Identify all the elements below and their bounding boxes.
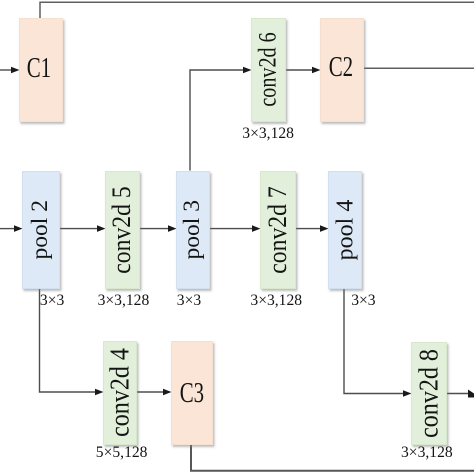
node C1 bbox=[19, 18, 63, 122]
value label 3x3 under pool3 bbox=[177, 294, 201, 307]
value label 3x3,128 under conv2d6 bbox=[242, 127, 294, 140]
wire: conv2d6 to C2 arrow bbox=[284, 69, 314, 71]
value label 3x3,128 under conv2d5 bbox=[98, 294, 150, 307]
node conv2d 7 bbox=[260, 171, 296, 290]
wire: pool2 drop down and arrow into conv2d4 bbox=[40, 287, 98, 392]
node conv2d 6 bbox=[251, 18, 286, 123]
value label 3x3 under pool4 bbox=[351, 294, 375, 307]
node conv2d 8 bbox=[411, 342, 447, 445]
wire: conv2d5 to pool3 arrow bbox=[138, 228, 170, 230]
wire: conv2d4 to C3 arrow bbox=[135, 391, 165, 393]
node C3 bbox=[171, 341, 213, 445]
value label 3x3,128 under conv2d8 bbox=[401, 446, 453, 459]
wire: arrow into pool2 from left edge bbox=[0, 228, 16, 230]
wire: conv2d8 out right with clipped arrowhead bbox=[445, 393, 470, 395]
node conv2d 5 bbox=[105, 171, 140, 290]
value label 3x3,128 under conv2d7 bbox=[250, 294, 302, 307]
wire: C3 drop down and line along bottom to right edge bbox=[191, 443, 474, 471]
value label 5x5,128 under conv2d4 bbox=[96, 446, 148, 459]
wire: pool4 drop down and arrow into conv2d8 bbox=[344, 287, 405, 394]
wire: pool2 to conv2d5 arrow bbox=[58, 228, 99, 230]
node pool 4 bbox=[328, 171, 362, 290]
node C2 bbox=[320, 18, 364, 122]
node conv2d 4 bbox=[103, 341, 137, 445]
node pool 2 bbox=[22, 171, 60, 290]
wire: conv2d7 to pool4 arrow bbox=[294, 228, 322, 230]
node pool 3 bbox=[176, 171, 210, 290]
wire: arrow into C1 from left edge bbox=[0, 69, 13, 71]
wire: C2 out to right edge bbox=[362, 67, 474, 69]
wire: pool3 to conv2d7 arrow bbox=[208, 228, 254, 230]
wire: pool3 riser up and arrow into conv2d6 bbox=[190, 70, 245, 171]
wire: C1 top riser and long top line to right edge bbox=[40, 2, 474, 18]
value label 3x3 under pool2 bbox=[40, 294, 64, 307]
